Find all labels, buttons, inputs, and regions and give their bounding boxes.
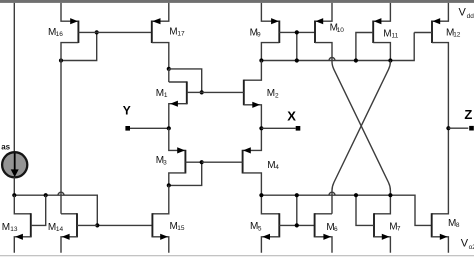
node net A / M11 drain and cross-wire [388,58,392,62]
wire M3 diode connection loop [169,162,202,185]
transistor M12 (PMOS mirror to Z) [414,3,448,128]
svg-text:12: 12 [453,32,461,39]
svg-text:15: 15 [177,225,185,232]
svg-text:as: as [1,143,10,152]
wire net A: M2/M9 drains, gates of M9-M12 [261,33,414,61]
node net B / M7 gate riser [354,193,358,197]
wire hop: bias wire crosses M14 drain line without connection [58,192,64,195]
svg-text:6: 6 [334,226,338,233]
transistor M16 (PMOS, diode-connected bias) [61,3,97,61]
node bias junction to M13 gate [44,193,48,197]
svg-text:2: 2 [275,92,279,99]
transistor M15 (NMOS bias mirror) [152,185,168,252]
svg-text:13: 13 [10,226,18,233]
svg-text:4: 4 [275,164,279,171]
node M1/M2 gate junction [200,90,204,94]
svg-text:X: X [287,108,296,123]
transistor M2 (PMOS translinear loop) [202,61,262,129]
svg-text:M: M [156,88,164,99]
node Y junction [167,126,171,130]
transistor M1 (PMOS translinear loop) [169,81,202,128]
svg-text:17: 17 [177,31,185,38]
VDD rail (top supply bus) [0,0,474,3]
svg-text:M: M [383,28,391,39]
transistor M7 (NMOS mirror) [356,195,390,253]
svg-text:dd: dd [467,13,474,20]
wire gate tie M5-M6 [279,224,314,226]
wire current source output to bias node [13,177,15,195]
node M16 drain junction [59,58,63,62]
transistor M13 (NMOS, diode-connected bias) [14,195,45,253]
wire X terminal [261,127,295,129]
node bias junction at current source / M13 drain [12,193,16,197]
current source Ibias (circle with down arrow) [2,152,27,177]
transistor M8 (NMOS mirror to Z) [432,128,449,253]
node net A / M11 gate [354,58,358,62]
svg-text:o2: o2 [469,244,474,251]
wire gate tie M9-M10 [297,31,315,33]
node M3/M4 gate junction [200,160,204,164]
svg-text:1: 1 [164,92,168,99]
node M9/M10 gate junction [295,30,299,34]
svg-text:14: 14 [56,226,64,233]
svg-text:8: 8 [456,222,460,229]
transistor M5 (NMOS, diode-connected) [261,195,279,253]
transistor M17 (PMOS mirror of M16) [152,3,169,69]
wire Ibias from VDD rail down to current source [13,3,15,152]
svg-text:V: V [459,6,467,18]
svg-text:16: 16 [56,31,64,38]
node M16 gate junction [95,30,99,34]
wire M1 diode connection loop [169,69,202,93]
svg-text:V: V [461,238,469,250]
node net B / M4-M5 drains [259,193,263,197]
transistor M11 (PMOS, diode-connected) [356,3,391,61]
svg-text:7: 7 [397,226,401,233]
VSS rail (bottom supply line, faint) [0,255,474,256]
transistor M4 (NMOS translinear loop) [202,128,262,195]
svg-text:M: M [169,27,177,38]
wire gate tie M16-M17 [97,31,152,33]
transistor M9 (PMOS, diode-connected) [261,3,296,61]
wire hop: net B crosses M6 drain diagonal without connection [329,192,335,195]
transistor M3 (NMOS translinear loop, diode-connected) [169,128,202,185]
wire net B: M4/M5/M7 drains and NMOS mirror gates [261,195,431,225]
wire M16 drain down to M14 drain (crosses bias wire) [60,61,62,214]
svg-text:9: 9 [257,32,261,39]
node X junction [259,126,263,130]
svg-text:5: 5 [258,225,262,232]
svg-text:M: M [267,88,275,99]
transistor M10 (PMOS mirror output) [315,3,390,195]
svg-text:M: M [2,222,10,233]
svg-text:Y: Y [123,104,131,118]
wire Z terminal [448,127,468,129]
svg-text:10: 10 [337,27,345,34]
svg-text:3: 3 [163,159,167,166]
node net A / M9-M2 drains [259,58,263,62]
transistor M14 (NMOS bias mirror) [61,213,97,253]
wire M16 drain to M16/M17 gate (diode connection) [61,32,97,60]
transistor M6 (NMOS mirror, drain to cross-wire) [315,213,332,253]
node net A / mirror gates [295,58,299,62]
node net B / M5 gate riser [295,193,299,197]
node net B / M7 drain and cross-wire [388,193,392,197]
wire bias net: Ibias to M13/M14/M15 gates [14,195,152,225]
node bias junction to M14 gate [95,223,99,227]
svg-text:11: 11 [392,32,399,39]
svg-text:Z: Z [464,107,472,122]
wire cross-coupling diagonal: M11 drain down to M6 drain (hops over net B) [332,61,390,214]
node M17 drain / M1 gate junction [167,67,171,71]
node M3 drain / M15 drain junction [167,183,171,187]
wire hop: net A crosses M10 drain diagonal without connection [329,58,335,61]
wire M9/M10 gates down to net A [296,32,298,60]
wire M5/M6 gates up to net B [296,195,298,225]
node Z junction [446,126,450,130]
terminal Y (input node with square pad) [125,126,130,131]
wire M17 drain to M1 source lead [168,69,170,82]
wire Y terminal to M1/M3 sources [130,127,169,129]
node M5/M6 gate junction [295,223,299,227]
